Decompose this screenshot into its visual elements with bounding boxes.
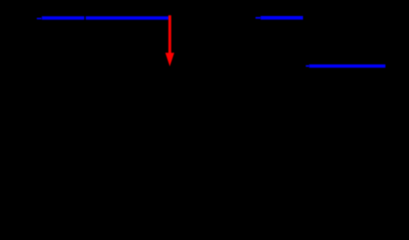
transition arrow head xyxy=(165,53,174,67)
upper energy level E2 (left), segment a xyxy=(42,16,85,19)
transition arrow (red, downward) shaft xyxy=(168,15,171,55)
upper energy level (right) xyxy=(261,16,303,20)
upper energy level E2 (left), lead-in taper xyxy=(37,18,42,20)
upper energy level E2 (left), segment b xyxy=(86,16,169,19)
lower energy level (right) xyxy=(309,64,385,67)
lower energy level (right), lead-in taper xyxy=(306,65,310,67)
upper energy level (right), lead-in taper xyxy=(256,17,261,19)
